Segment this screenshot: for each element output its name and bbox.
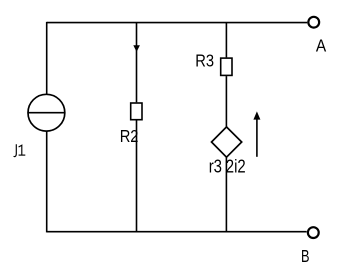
- wire left vertical lower: [46, 131, 48, 233]
- svg-text:B: B: [301, 246, 310, 266]
- resistor R2: [131, 103, 142, 120]
- label J1: [14, 144, 26, 156]
- current direction arrow beside dependent source: [253, 111, 260, 156]
- current direction arrow on R2 branch: [133, 45, 140, 52]
- wire R3 branch upper: [225, 23, 227, 58]
- wire diamond to bottom rail: [225, 157, 227, 232]
- terminal A: [308, 17, 319, 28]
- wire left vertical upper: [46, 22, 48, 95]
- svg-text:r3: r3: [209, 156, 222, 176]
- current source J1: [28, 94, 65, 131]
- terminal B: [308, 227, 319, 238]
- svg-text:2i2: 2i2: [226, 156, 246, 176]
- wire top rail: [47, 22, 308, 24]
- wire R2 branch lower: [136, 120, 138, 231]
- resistor R3: [221, 58, 232, 75]
- svg-text:A: A: [316, 35, 327, 55]
- svg-text:R2: R2: [120, 126, 139, 146]
- wire R3 to diamond: [225, 76, 227, 127]
- wire bottom rail: [47, 231, 307, 233]
- dependent current source r32i2 (diamond): [212, 127, 242, 157]
- wire R2 branch upper: [136, 23, 138, 103]
- svg-text:R3: R3: [195, 51, 214, 71]
